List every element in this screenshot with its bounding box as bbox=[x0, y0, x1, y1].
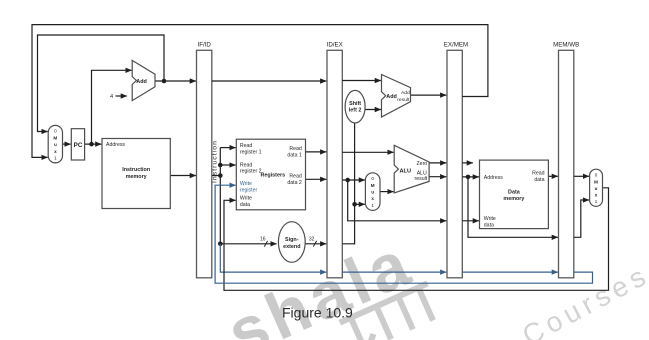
svg-text:memory: memory bbox=[503, 196, 524, 202]
svg-text:1: 1 bbox=[371, 203, 374, 208]
svg-text:result: result bbox=[397, 97, 410, 103]
svg-text:register 1: register 1 bbox=[240, 150, 262, 156]
svg-text:EX/MEM: EX/MEM bbox=[444, 41, 468, 48]
svg-text:Read: Read bbox=[289, 146, 302, 152]
svg-text:Registers: Registers bbox=[261, 172, 286, 178]
svg-text:x: x bbox=[54, 149, 57, 154]
svg-text:M: M bbox=[594, 179, 598, 184]
svg-text:Data: Data bbox=[508, 189, 521, 195]
svg-text:IF/ID: IF/ID bbox=[197, 41, 211, 48]
svg-text:data: data bbox=[240, 202, 250, 208]
svg-text:PC: PC bbox=[74, 142, 83, 149]
svg-text:0: 0 bbox=[595, 172, 598, 177]
svg-text:x: x bbox=[371, 196, 374, 201]
svg-text:Read: Read bbox=[240, 143, 253, 149]
svg-text:ALU: ALU bbox=[400, 169, 412, 175]
svg-text:extend: extend bbox=[283, 244, 300, 250]
svg-text:Write: Write bbox=[240, 196, 252, 202]
svg-text:Read: Read bbox=[289, 174, 302, 180]
svg-text:MEM/WB: MEM/WB bbox=[553, 41, 579, 48]
svg-text:memory: memory bbox=[126, 174, 147, 180]
svg-text:Add: Add bbox=[401, 90, 410, 96]
svg-text:left 2: left 2 bbox=[349, 107, 362, 113]
svg-text:Write: Write bbox=[484, 216, 496, 222]
svg-text:Write: Write bbox=[240, 181, 252, 187]
svg-text:result: result bbox=[415, 176, 428, 182]
svg-text:Zero: Zero bbox=[417, 161, 428, 167]
svg-text:u: u bbox=[595, 186, 598, 191]
svg-text:Instruction: Instruction bbox=[122, 167, 150, 173]
svg-text:Add: Add bbox=[386, 94, 396, 100]
svg-text:Address: Address bbox=[484, 175, 503, 181]
svg-text:0: 0 bbox=[54, 129, 57, 134]
svg-text:M: M bbox=[53, 136, 57, 141]
svg-text:ID/EX: ID/EX bbox=[327, 41, 343, 48]
svg-text:register 2: register 2 bbox=[240, 168, 262, 174]
svg-text:Shift: Shift bbox=[349, 101, 361, 107]
svg-text:u: u bbox=[371, 190, 374, 195]
svg-text:Add: Add bbox=[136, 79, 146, 85]
svg-text:data: data bbox=[484, 222, 494, 228]
svg-text:M: M bbox=[371, 183, 375, 188]
svg-text:32: 32 bbox=[309, 236, 315, 242]
svg-text:data 2: data 2 bbox=[287, 180, 302, 186]
svg-text:1: 1 bbox=[54, 156, 57, 161]
svg-text:Figure 10.9: Figure 10.9 bbox=[282, 304, 353, 320]
svg-text:Read: Read bbox=[532, 170, 545, 176]
svg-text:0: 0 bbox=[371, 176, 374, 181]
svg-text:Sign-: Sign- bbox=[285, 237, 299, 243]
svg-text:Instruction: Instruction bbox=[211, 140, 218, 183]
svg-text:4: 4 bbox=[110, 94, 113, 100]
svg-text:x: x bbox=[595, 192, 598, 197]
svg-text:16: 16 bbox=[260, 236, 266, 242]
svg-text:data 1: data 1 bbox=[287, 153, 302, 159]
svg-text:data: data bbox=[534, 177, 544, 183]
svg-text:register: register bbox=[240, 188, 258, 194]
svg-text:Address: Address bbox=[106, 142, 125, 148]
svg-text:1: 1 bbox=[595, 199, 598, 204]
svg-text:u: u bbox=[54, 142, 57, 147]
